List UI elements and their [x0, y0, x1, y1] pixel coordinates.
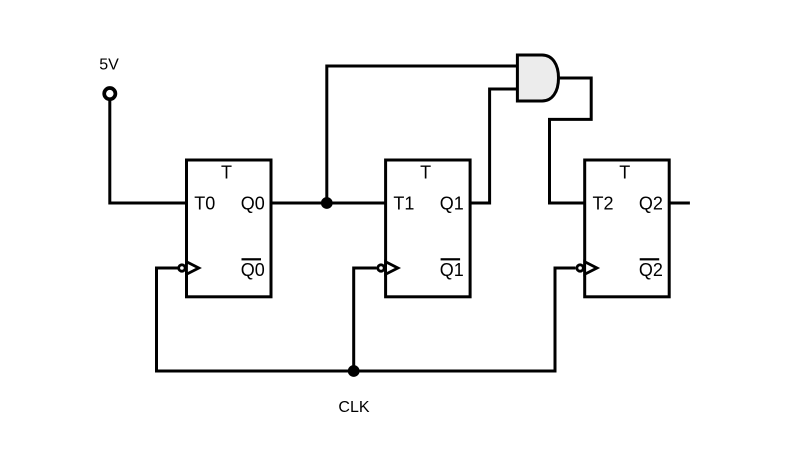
svg-text:Q1: Q1: [440, 260, 464, 280]
svg-text:T: T: [619, 163, 630, 183]
svg-text:CLK: CLK: [338, 399, 369, 416]
svg-text:T: T: [420, 163, 431, 183]
svg-text:Q2: Q2: [639, 260, 663, 280]
svg-text:Q2: Q2: [639, 194, 663, 214]
svg-text:Q0: Q0: [241, 194, 265, 214]
svg-text:Q0: Q0: [241, 260, 265, 280]
svg-text:T1: T1: [393, 194, 414, 214]
svg-text:T0: T0: [194, 194, 215, 214]
svg-text:5V: 5V: [99, 57, 119, 74]
svg-text:T2: T2: [593, 194, 614, 214]
svg-text:T: T: [221, 163, 232, 183]
svg-text:Q1: Q1: [440, 194, 464, 214]
